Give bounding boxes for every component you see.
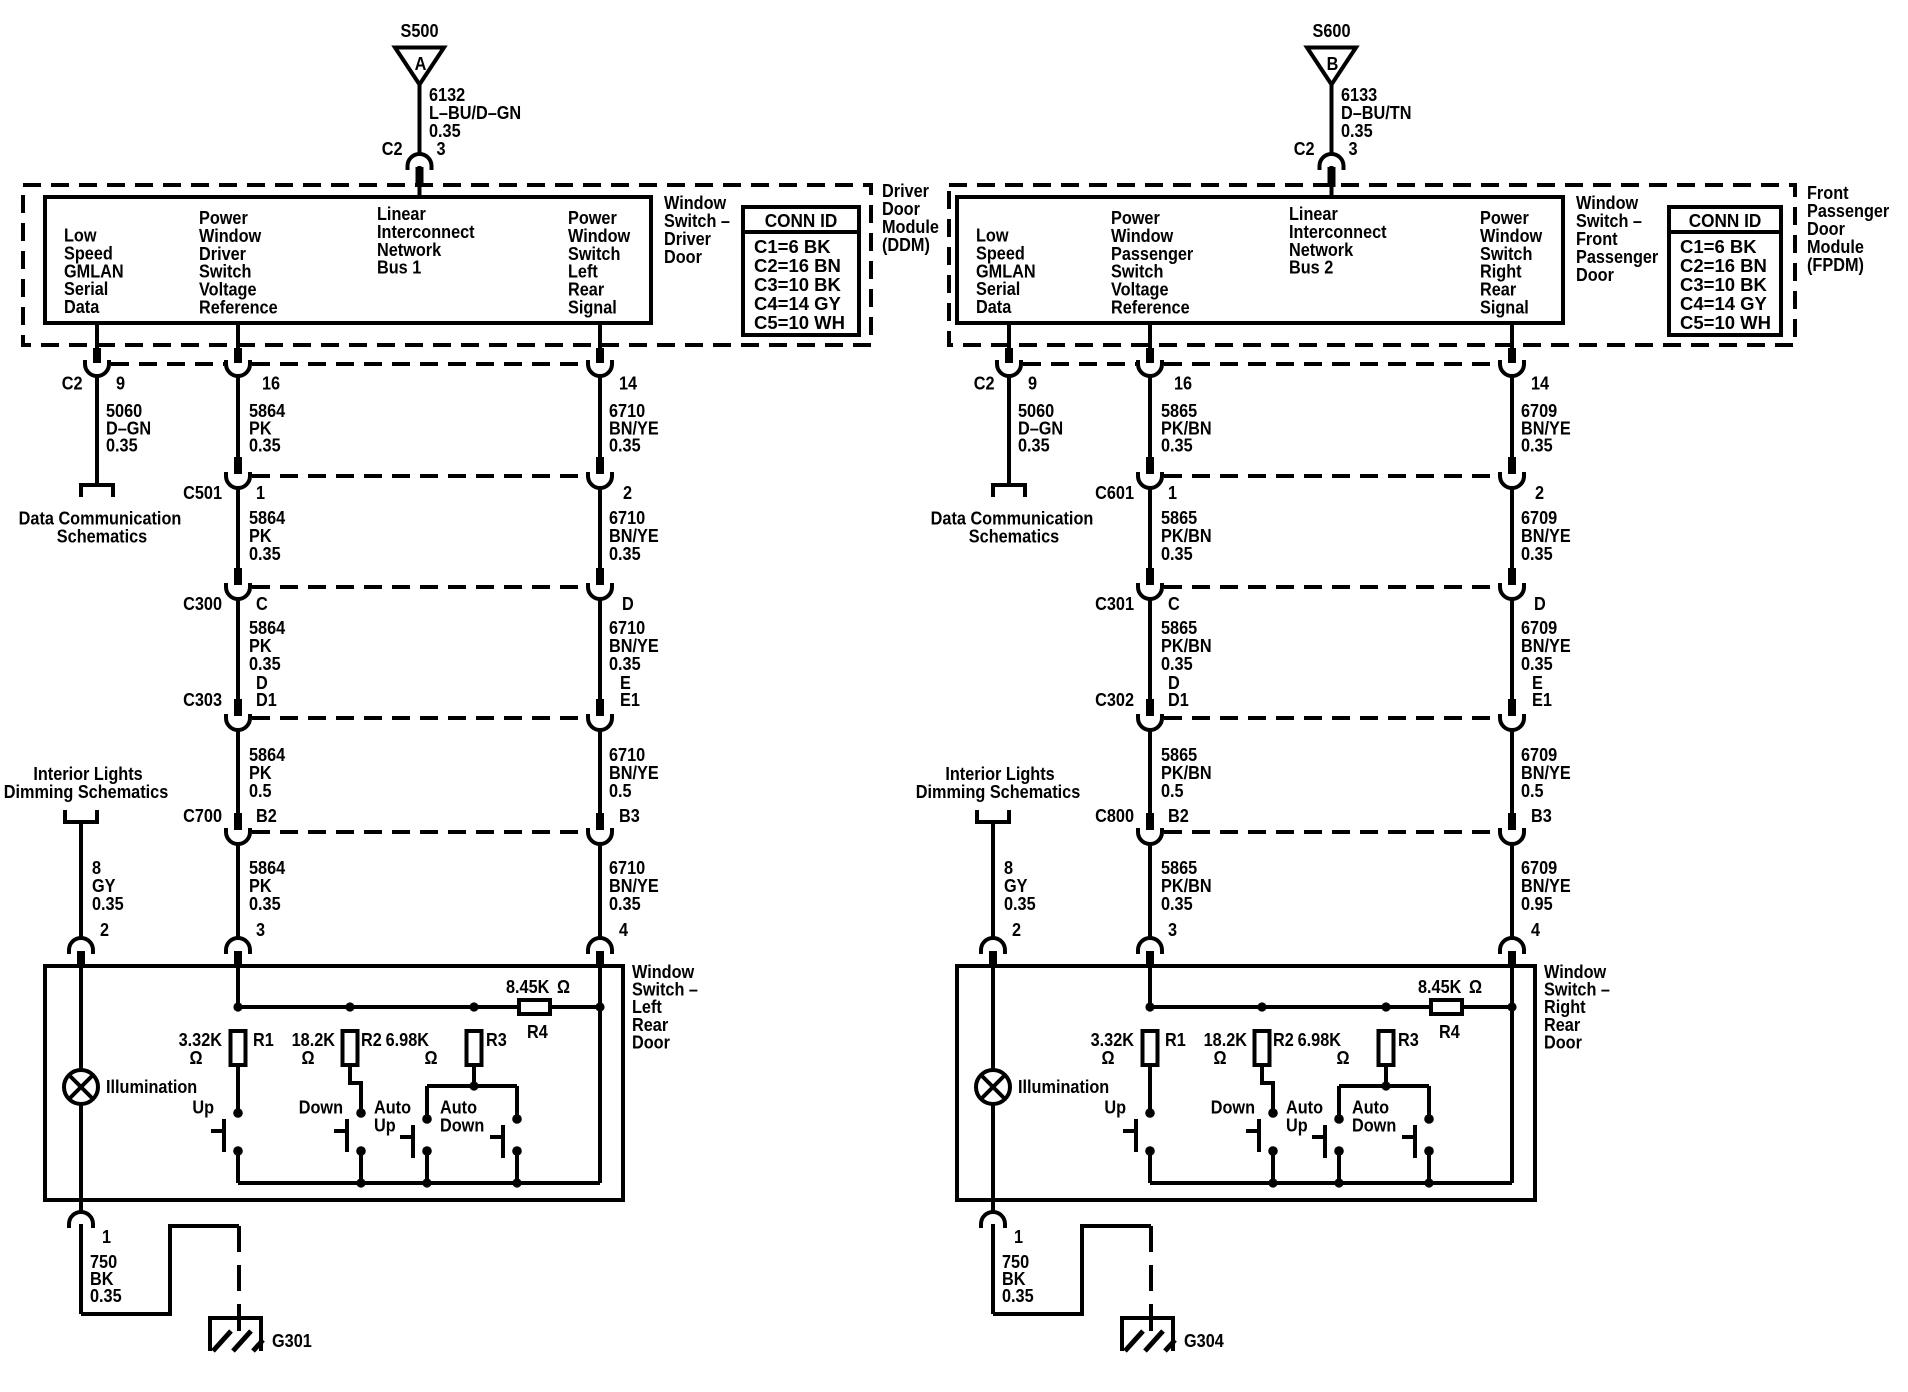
svg-text:4: 4 [1531,919,1540,940]
svg-text:Schematics: Schematics [57,526,147,547]
svg-text:Ω: Ω [424,1047,437,1068]
svg-text:8.45K: 8.45K [506,976,550,997]
svg-text:C2: C2 [1294,138,1315,159]
svg-text:C4=14 GY: C4=14 GY [1680,293,1768,314]
svg-text:Door: Door [1576,264,1614,285]
svg-text:C3=10 BK: C3=10 BK [1680,274,1768,295]
svg-text:R4: R4 [1439,1021,1460,1042]
svg-text:C2: C2 [974,373,995,394]
svg-text:Signal: Signal [568,297,617,318]
svg-text:8.45K: 8.45K [1418,976,1462,997]
svg-text:6.98K: 6.98K [386,1029,430,1050]
svg-text:C5=10 WH: C5=10 WH [754,312,845,333]
svg-text:R3: R3 [486,1029,507,1050]
svg-text:0.35: 0.35 [609,893,641,914]
svg-text:E1: E1 [1532,689,1552,710]
svg-text:Door: Door [664,246,702,267]
svg-text:Up: Up [374,1115,396,1136]
svg-text:0.35: 0.35 [1002,1285,1034,1306]
svg-text:14: 14 [619,373,637,394]
svg-text:Signal: Signal [1480,297,1529,318]
svg-text:0.35: 0.35 [249,543,281,564]
svg-text:D: D [1534,593,1546,614]
svg-text:R1: R1 [1165,1029,1186,1050]
svg-text:B3: B3 [1531,805,1552,826]
svg-text:E1: E1 [620,689,640,710]
svg-text:C2: C2 [382,138,403,159]
svg-text:C3=10 BK: C3=10 BK [754,274,842,295]
svg-text:C501: C501 [183,482,222,503]
svg-text:Ω: Ω [189,1047,202,1068]
svg-text:0.5: 0.5 [1521,780,1544,801]
svg-text:Reference: Reference [1111,297,1190,318]
svg-text:A: A [415,53,427,74]
svg-text:C5=10 WH: C5=10 WH [1680,312,1771,333]
svg-text:G304: G304 [1184,1330,1224,1351]
svg-text:C2=16 BN: C2=16 BN [1680,255,1767,276]
svg-text:1: 1 [1014,1226,1023,1247]
svg-text:0.35: 0.35 [106,435,138,456]
svg-text:0.35: 0.35 [1161,543,1193,564]
svg-text:C302: C302 [1095,689,1134,710]
svg-text:Door: Door [632,1031,670,1052]
svg-text:0.5: 0.5 [1161,780,1184,801]
svg-text:14: 14 [1531,373,1549,394]
svg-text:Dimming Schematics: Dimming Schematics [4,781,168,802]
svg-text:Ω: Ω [1213,1047,1226,1068]
svg-text:0.35: 0.35 [1161,893,1193,914]
svg-text:R3: R3 [1398,1029,1419,1050]
svg-text:S600: S600 [1313,20,1351,41]
svg-text:D: D [622,593,634,614]
svg-text:C2: C2 [62,373,83,394]
svg-text:R2: R2 [361,1029,382,1050]
svg-text:C2=16 BN: C2=16 BN [754,255,841,276]
svg-text:C4=14 GY: C4=14 GY [754,293,842,314]
svg-text:2: 2 [623,482,632,503]
svg-text:Ω: Ω [1101,1047,1114,1068]
svg-text:C300: C300 [183,593,222,614]
svg-text:(FPDM): (FPDM) [1807,254,1864,275]
svg-text:16: 16 [262,373,280,394]
svg-text:CONN ID: CONN ID [1689,210,1762,231]
svg-text:0.35: 0.35 [1521,435,1553,456]
svg-text:D1: D1 [256,689,277,710]
svg-text:C: C [256,593,268,614]
svg-text:0.35: 0.35 [92,893,124,914]
svg-text:Illumination: Illumination [106,1076,197,1097]
svg-text:0.35: 0.35 [249,893,281,914]
svg-text:6.98K: 6.98K [1298,1029,1342,1050]
svg-text:S500: S500 [401,20,439,41]
svg-text:0.35: 0.35 [249,435,281,456]
svg-text:C1=6 BK: C1=6 BK [1680,236,1757,257]
svg-text:0.35: 0.35 [1018,435,1050,456]
svg-text:Bus 2: Bus 2 [1289,257,1333,278]
svg-text:D1: D1 [1168,689,1189,710]
svg-text:0.35: 0.35 [90,1285,122,1306]
svg-text:3: 3 [1168,919,1177,940]
svg-text:B3: B3 [619,805,640,826]
svg-text:B2: B2 [256,805,277,826]
svg-text:C601: C601 [1095,482,1134,503]
svg-text:C301: C301 [1095,593,1134,614]
svg-text:1: 1 [102,1226,111,1247]
svg-text:Up: Up [1286,1115,1308,1136]
svg-text:C303: C303 [183,689,222,710]
svg-text:B2: B2 [1168,805,1189,826]
svg-text:Dimming Schematics: Dimming Schematics [916,781,1080,802]
svg-text:C700: C700 [183,805,222,826]
svg-text:Door: Door [1544,1031,1582,1052]
svg-text:R1: R1 [253,1029,274,1050]
svg-text:1: 1 [256,482,265,503]
svg-text:Up: Up [192,1097,214,1118]
svg-text:Down: Down [440,1115,484,1136]
svg-text:Bus 1: Bus 1 [377,257,422,278]
svg-text:Illumination: Illumination [1018,1076,1109,1097]
svg-text:9: 9 [116,373,125,394]
svg-text:R4: R4 [527,1021,548,1042]
svg-text:Ω: Ω [1469,976,1482,997]
svg-text:2: 2 [1012,919,1021,940]
svg-text:0.5: 0.5 [609,780,632,801]
svg-text:3: 3 [1349,138,1358,159]
svg-text:Up: Up [1104,1097,1126,1118]
svg-text:Down: Down [1211,1097,1255,1118]
svg-text:2: 2 [100,919,109,940]
svg-text:Data: Data [64,296,100,317]
svg-text:0.5: 0.5 [249,780,272,801]
svg-text:Schematics: Schematics [969,526,1059,547]
svg-text:(DDM): (DDM) [882,234,930,255]
svg-text:4: 4 [619,919,628,940]
svg-text:R2: R2 [1273,1029,1294,1050]
svg-text:B: B [1327,53,1339,74]
svg-text:16: 16 [1174,373,1192,394]
svg-text:0.35: 0.35 [609,435,641,456]
svg-text:0.95: 0.95 [1521,893,1553,914]
svg-text:Ω: Ω [301,1047,314,1068]
svg-text:Ω: Ω [557,976,570,997]
svg-text:Reference: Reference [199,297,278,318]
svg-text:Down: Down [299,1097,343,1118]
svg-text:Data: Data [976,296,1012,317]
svg-text:Ω: Ω [1336,1047,1349,1068]
svg-text:Down: Down [1352,1115,1396,1136]
svg-text:0.35: 0.35 [1161,435,1193,456]
svg-text:0.35: 0.35 [609,543,641,564]
svg-text:0.35: 0.35 [1521,543,1553,564]
svg-text:C1=6 BK: C1=6 BK [754,236,831,257]
svg-text:0.35: 0.35 [1004,893,1036,914]
svg-text:9: 9 [1028,373,1037,394]
svg-text:C800: C800 [1095,805,1134,826]
svg-text:3: 3 [437,138,446,159]
svg-text:CONN ID: CONN ID [765,210,838,231]
svg-text:G301: G301 [272,1330,312,1351]
svg-text:C: C [1168,593,1180,614]
svg-text:2: 2 [1535,482,1544,503]
svg-text:3: 3 [256,919,265,940]
svg-text:1: 1 [1168,482,1177,503]
